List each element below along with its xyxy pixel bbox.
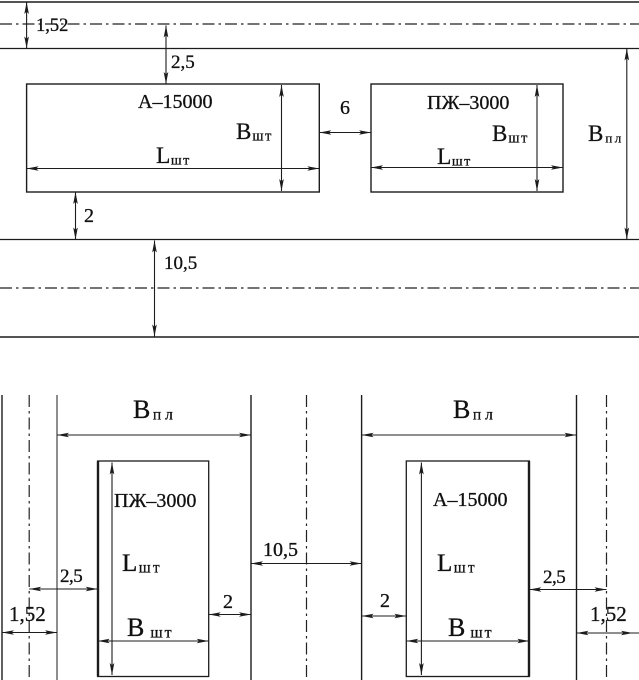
- value label 6 (gap between sheets): [340, 97, 350, 119]
- svg-text:10,5: 10,5: [164, 253, 197, 274]
- dimension arrow 2,5 (top): [164, 26, 169, 85]
- svg-text:2: 2: [84, 205, 94, 227]
- value label 2 (left group): [223, 591, 233, 613]
- svg-text:Lшт: Lшт: [437, 550, 477, 577]
- svg-text:Вшт: Вшт: [127, 613, 174, 642]
- svg-text:Впл: Впл: [588, 121, 624, 146]
- wire: bottom web edge line: [0, 336, 639, 338]
- label B пл (right, side view): [588, 121, 624, 146]
- label ПЖ-3000 (plan view): [114, 490, 196, 512]
- value label 1,52 (left group): [9, 602, 46, 626]
- dimension arrow 10,5 (plan): [251, 561, 362, 566]
- centerline middle (dash-dot): [306, 395, 308, 680]
- dimension arrow B шт horizontal (plan A): [406, 639, 529, 644]
- rectangle sheet ПЖ-3000 (side view): [371, 84, 563, 192]
- svg-text:ПЖ–3000: ПЖ–3000: [427, 92, 509, 114]
- rectangle sheet A-15000 (plan view): [406, 461, 529, 677]
- dimension arrow 2,5 (left group): [29, 587, 98, 592]
- label B пл (left group): [133, 395, 177, 424]
- value label 1,52 (right group): [590, 602, 627, 626]
- page edge line (right group left): [361, 395, 363, 680]
- svg-text:2,5: 2,5: [60, 566, 82, 587]
- value label 2 (right group): [380, 590, 390, 612]
- rectangle sheet A-15000 (side view): [27, 84, 320, 192]
- page edge line (right group right): [576, 395, 578, 680]
- value label 2,5 (right group): [543, 567, 565, 588]
- label B шт (top rect ПЖ): [492, 121, 529, 147]
- dimension arrow 2 (left group): [209, 612, 251, 617]
- label B шт (plan A): [448, 613, 494, 642]
- value label 10,5 (plan): [263, 539, 298, 561]
- dimension arrow 6 (gap): [319, 130, 371, 135]
- centerline right (dash-dot): [606, 395, 608, 680]
- wire: top web edge line: [0, 1, 639, 3]
- wire: upper margin line: [0, 48, 639, 50]
- label L шт (top rect ПЖ): [437, 144, 472, 170]
- svg-text:Lшт: Lшт: [122, 550, 162, 577]
- svg-text:10,5: 10,5: [263, 539, 298, 561]
- dimension arrow B шт vertical (rect ПЖ): [535, 85, 540, 191]
- dimension arrow 2,5 (right group): [529, 587, 606, 592]
- dimension arrow 1,52 (right group): [577, 631, 639, 636]
- margin line left: [56, 395, 58, 680]
- label A-15000 (plan view): [433, 489, 507, 511]
- svg-text:1,52: 1,52: [9, 602, 46, 626]
- centerline left (dash-dot): [28, 395, 30, 680]
- dimension arrow L шт vertical (plan A): [419, 463, 424, 676]
- svg-text:Lшт: Lшт: [156, 143, 191, 169]
- dimension arrow 2 (right group): [362, 614, 407, 619]
- dimension arrow L шт vertical (plan ПЖ): [110, 463, 115, 676]
- dimension arrow L шт horizontal (rect ПЖ): [371, 165, 563, 170]
- value label 10,5 (top): [164, 253, 197, 274]
- rectangle sheet ПЖ-3000 (plan view): [98, 461, 209, 677]
- value label 2,5 (top): [171, 52, 195, 73]
- label B пл (right group): [453, 395, 497, 424]
- svg-text:2: 2: [223, 591, 233, 613]
- value label 2 (top view): [84, 205, 94, 227]
- label L шт (top rect A): [156, 143, 191, 169]
- label L шт (plan A): [437, 550, 477, 577]
- svg-text:2,5: 2,5: [171, 52, 195, 73]
- svg-text:2: 2: [380, 590, 390, 612]
- dimension arrow 10,5 (top): [152, 241, 157, 337]
- centerline (dash-dot) lower: [0, 287, 639, 289]
- wire: lower margin line: [0, 239, 639, 241]
- value label 2,5 (left group): [60, 566, 82, 587]
- dimension arrow B пл horizontal (left group): [57, 433, 251, 438]
- label ПЖ-3000 (top rect): [427, 92, 509, 114]
- label B шт (top rect A): [236, 119, 273, 145]
- svg-text:Вшт: Вшт: [448, 613, 494, 642]
- svg-text:1,52: 1,52: [590, 602, 627, 626]
- svg-text:Впл: Впл: [133, 395, 177, 424]
- dimension arrow 2 (below rect A): [73, 192, 78, 240]
- dimension arrow L шт horizontal (rect A): [27, 166, 320, 171]
- web edge line left: [1, 395, 3, 680]
- svg-text:Lшт: Lшт: [437, 144, 472, 170]
- svg-text:Вшт: Вшт: [236, 119, 273, 145]
- svg-text:А–15000: А–15000: [433, 489, 507, 511]
- dimension arrow B шт horizontal (plan ПЖ): [98, 639, 209, 644]
- svg-text:ПЖ–3000: ПЖ–3000: [114, 490, 196, 512]
- svg-text:6: 6: [340, 97, 350, 119]
- value label 1,52 (top): [36, 16, 68, 36]
- svg-text:2,5: 2,5: [543, 567, 565, 588]
- label A-15000 (top rect): [138, 91, 212, 113]
- svg-text:А–15000: А–15000: [138, 91, 212, 113]
- dimension arrow B пл vertical (right): [625, 49, 630, 240]
- svg-text:Вшт: Вшт: [492, 121, 529, 147]
- dimension arrow B пл horizontal (right group): [362, 433, 577, 438]
- dimension arrow 1,52 (top): [24, 2, 29, 49]
- svg-text:Впл: Впл: [453, 395, 497, 424]
- label L шт (plan ПЖ): [122, 550, 162, 577]
- page edge line (left group right): [250, 395, 252, 680]
- label B шт (plan ПЖ): [127, 613, 174, 642]
- centerline (dash-dot) upper: [0, 23, 639, 25]
- dimension arrow B шт vertical (rect A): [279, 85, 284, 191]
- svg-text:1,52: 1,52: [36, 16, 68, 36]
- dimension arrow 1,52 (left group): [2, 630, 57, 635]
